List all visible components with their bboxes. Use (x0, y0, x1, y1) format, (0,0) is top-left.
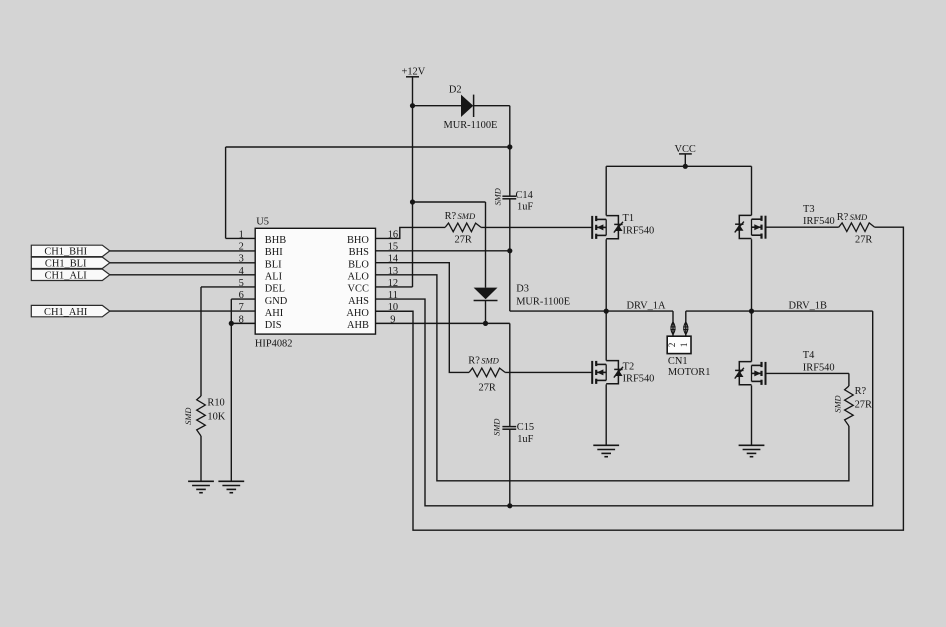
wire DIS pin 8 (231, 322, 255, 324)
diode D3 MUR-1100E (474, 284, 570, 324)
svg-text:BLO: BLO (348, 259, 369, 270)
wire DEL pin 5 to R10 (201, 287, 255, 396)
wire VCC rail (606, 165, 751, 167)
op-amp U5 HIP4082 (IC body) (255, 216, 376, 349)
net label DRV_1B (789, 301, 827, 312)
wire AHS pin 11 to DRV_1B (376, 299, 873, 506)
wire ALO pin 13 to T4 gate resistor (376, 275, 849, 481)
svg-text:AHS: AHS (348, 296, 369, 307)
U5 pin 11 (AHS) (348, 290, 398, 307)
svg-text:DEL: DEL (265, 284, 285, 295)
svg-text:4: 4 (239, 266, 245, 277)
wire C15 bottom to AHS bus (509, 429, 511, 506)
svg-text:GND: GND (265, 296, 288, 307)
wire DRV_1A (horizontal) (510, 310, 673, 312)
svg-text:MUR-1100E: MUR-1100E (516, 297, 570, 308)
wire CH1_AHI to pin 7 (110, 310, 255, 312)
svg-text:6: 6 (239, 290, 244, 301)
svg-text:10K: 10K (207, 411, 225, 422)
net label DRV_1A (627, 301, 666, 312)
svg-text:MOTOR1: MOTOR1 (668, 367, 711, 378)
node +12V/D2 junction (410, 103, 415, 108)
power +12V (402, 67, 426, 106)
svg-text:SMD: SMD (184, 408, 193, 425)
resistor R? 27R SMD (T3 gate) (837, 212, 875, 246)
diode D2 MUR-1100E (413, 85, 510, 132)
wire D2 cathode down to C14 (509, 106, 511, 196)
node BHB/C14 junction (507, 144, 512, 149)
svg-text:1: 1 (239, 229, 244, 240)
node GND/DIS junction (229, 321, 234, 326)
node VCC rail junction (683, 164, 688, 169)
U5 pin 1 (BHB) (239, 229, 287, 246)
svg-text:27R: 27R (455, 234, 472, 245)
wire AHO pin 10 to T3 gate resistor (376, 227, 904, 530)
wire T3 source to DRV_1B (751, 239, 753, 311)
U5 pin 15 (BHS) (349, 242, 398, 259)
svg-text:AHB: AHB (347, 320, 369, 331)
wire R? to T4 gate (766, 373, 849, 386)
wire +12V to VCC pin (vertical) (412, 106, 414, 202)
svg-text:AHO: AHO (346, 308, 369, 319)
svg-text:IRF540: IRF540 (803, 216, 835, 227)
svg-text:T3: T3 (803, 204, 815, 215)
resistor R? 27R SMD (T4 gate, vertical) (834, 386, 872, 426)
svg-text:13: 13 (388, 266, 398, 277)
wire CH1_BLI to pin 3 (110, 262, 255, 264)
resistor R? 27R SMD (T2 gate) (468, 356, 505, 394)
U5 pin 16 (BHO) (347, 229, 398, 246)
svg-text:BLI: BLI (265, 259, 282, 270)
svg-text:SMD: SMD (481, 356, 499, 366)
transistor T3 IRF540 (735, 204, 835, 239)
resistor R10 10K SMD (184, 396, 226, 436)
svg-text:2: 2 (239, 242, 244, 253)
svg-text:VCC: VCC (348, 284, 369, 295)
wire DRV_1B (horizontal) (686, 310, 873, 312)
svg-text:ALI: ALI (265, 272, 283, 283)
U5 pin 7 (AHI) (239, 302, 284, 319)
transistor T4 IRF540 (735, 350, 835, 385)
svg-text:1uF: 1uF (517, 202, 533, 213)
svg-text:SMD: SMD (493, 188, 502, 205)
svg-text:BHB: BHB (265, 235, 286, 246)
transistor T2 IRF540 (592, 361, 654, 385)
wire R? to T3 gate (766, 226, 839, 228)
U5 pin 13 (ALO) (348, 266, 399, 283)
svg-text:ALO: ALO (348, 272, 370, 283)
svg-text:CH1_ALI: CH1_ALI (45, 271, 88, 282)
svg-text:2: 2 (667, 343, 677, 348)
svg-text:15: 15 (388, 242, 398, 253)
ground (T2) (593, 445, 619, 457)
wire T2 source to ground (605, 384, 607, 445)
svg-text:R10: R10 (207, 398, 224, 409)
svg-text:DRV_1A: DRV_1A (627, 301, 666, 312)
svg-text:SMD: SMD (458, 211, 476, 221)
capacitor C14 1uF (493, 188, 533, 212)
svg-text:+12V: +12V (402, 67, 426, 78)
U5 pin 8 (DIS) (239, 314, 282, 331)
svg-text:CH1_AHI: CH1_AHI (44, 307, 88, 318)
svg-text:27R: 27R (855, 234, 872, 245)
U5 pin 9 (AHB) (347, 314, 396, 331)
wire T2 drain (605, 311, 607, 361)
svg-text:10: 10 (388, 302, 398, 313)
svg-text:U5: U5 (256, 216, 269, 227)
svg-text:IRF540: IRF540 (623, 226, 655, 237)
resistor R? 27R SMD (T1 gate) (445, 211, 482, 245)
node T3/T4/DRV_1B junction (749, 309, 754, 314)
wire C14 bottom to BHS (509, 199, 511, 251)
svg-text:16: 16 (388, 229, 398, 240)
svg-text:R?: R? (445, 211, 457, 222)
wire BHS pin 15 (376, 250, 510, 252)
connector CN1 MOTOR1 (667, 311, 710, 378)
wire CH1_ALI to pin 4 (110, 274, 255, 276)
wire R? to T2 gate (505, 371, 592, 373)
capacitor C15 1uF (492, 419, 534, 445)
node BHS/C14 junction (507, 248, 512, 253)
svg-text:R?: R? (468, 356, 480, 367)
ground (R10) (188, 481, 214, 493)
svg-text:DIS: DIS (265, 320, 282, 331)
svg-text:8: 8 (239, 314, 244, 325)
wire CH1_BHI to pin 2 (110, 250, 255, 252)
svg-text:BHI: BHI (265, 247, 283, 258)
wire BHS down to DRV_1A (509, 251, 511, 311)
svg-text:D3: D3 (516, 284, 529, 295)
wire D3 feed (vertical) (485, 202, 487, 288)
wire R? to T1 gate (481, 226, 592, 228)
node D3/AHB junction (483, 321, 488, 326)
svg-text:IRF540: IRF540 (623, 373, 655, 384)
U5 pin 12 (VCC) (348, 278, 399, 295)
U5 pin 5 (DEL) (239, 278, 285, 295)
svg-text:27R: 27R (479, 383, 496, 394)
svg-text:BHO: BHO (347, 235, 369, 246)
svg-text:3: 3 (239, 254, 244, 265)
svg-text:DRV_1B: DRV_1B (789, 301, 827, 312)
svg-text:MUR-1100E: MUR-1100E (444, 120, 498, 131)
ground (U5 GND) (218, 481, 244, 493)
node T1/T2/DRV_1A junction (604, 309, 609, 314)
svg-text:BHS: BHS (349, 247, 369, 258)
svg-text:T4: T4 (803, 350, 815, 361)
wire GND pin 6 down (231, 299, 255, 481)
svg-text:CN1: CN1 (668, 356, 688, 367)
wire BLO pin 14 to gate resistor (376, 263, 470, 373)
port CH1_ALI (31, 269, 110, 281)
svg-text:IRF540: IRF540 (803, 362, 835, 373)
svg-text:SMD: SMD (834, 395, 843, 412)
port CH1_BHI (31, 245, 110, 257)
wire BHO pin 16 to gate resistor (376, 227, 446, 238)
svg-text:SMD: SMD (492, 419, 501, 436)
port CH1_AHI (31, 305, 110, 317)
ground (T4) (739, 445, 765, 457)
svg-text:AHI: AHI (265, 308, 284, 319)
U5 pin 6 (GND) (239, 290, 288, 307)
wire AHB pin 9 to C15 (376, 323, 510, 426)
svg-text:C15: C15 (517, 422, 534, 433)
node C15/AHS-bus junction (507, 503, 512, 508)
svg-text:11: 11 (388, 290, 398, 301)
svg-text:R?: R? (855, 386, 867, 397)
svg-text:CH1_BLI: CH1_BLI (45, 259, 87, 270)
svg-text:CH1_BHI: CH1_BHI (44, 247, 87, 258)
svg-text:1uF: 1uF (517, 434, 533, 445)
U5 pin 2 (BHI) (239, 242, 284, 259)
svg-text:C14: C14 (516, 190, 534, 201)
svg-text:9: 9 (390, 314, 395, 325)
port CH1_BLI (31, 257, 110, 269)
svg-text:7: 7 (239, 302, 244, 313)
wire T3 drain (751, 166, 753, 215)
svg-text:D2: D2 (449, 85, 462, 96)
wire VCC to D3 (horizontal) (413, 201, 486, 203)
wire BHB net (pin1 to C14 top) (226, 147, 510, 238)
U5 pin 3 (BLI) (239, 254, 282, 271)
svg-text:SMD: SMD (850, 212, 868, 222)
wire R10 to ground (200, 436, 202, 481)
svg-text:HIP4082: HIP4082 (255, 339, 293, 350)
svg-text:T2: T2 (623, 361, 635, 372)
svg-text:14: 14 (388, 254, 399, 265)
transistor T1 IRF540 (592, 213, 654, 239)
wire T4 drain (751, 311, 753, 362)
U5 pin 14 (BLO) (348, 254, 399, 271)
U5 pin 10 (AHO) (346, 302, 398, 319)
wire T1 source to DRV_1A (605, 239, 607, 311)
power VCC (675, 144, 696, 166)
svg-text:12: 12 (388, 278, 398, 289)
node VCC-pin/D3 junction (410, 199, 415, 204)
svg-text:T1: T1 (623, 213, 635, 224)
wire T1 drain (605, 166, 607, 215)
svg-text:27R: 27R (855, 399, 872, 410)
wire VCC pin 12 (376, 202, 413, 287)
svg-text:5: 5 (239, 278, 244, 289)
wire T4 source to ground (751, 385, 753, 445)
U5 pin 4 (ALI) (239, 266, 283, 283)
svg-text:1: 1 (679, 343, 689, 348)
svg-text:R?: R? (837, 212, 849, 223)
